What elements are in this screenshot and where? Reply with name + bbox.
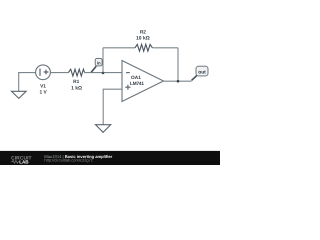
svg-text:http://circuitlab.com/c22g7c: http://circuitlab.com/c22g7c	[44, 158, 92, 163]
node junction (output net)	[177, 80, 180, 83]
node junction (inverting input net)	[102, 72, 105, 75]
wire from V1 left to corner	[19, 73, 36, 92]
voltage source V1	[36, 65, 51, 80]
ground (non-inverting input)	[96, 125, 111, 133]
op-amp OA1	[122, 61, 164, 102]
wire junction up to feedback	[102, 48, 104, 73]
svg-text:LAB: LAB	[19, 160, 29, 165]
wire op-amp non-inverting input	[103, 89, 122, 125]
svg-text:OA1: OA1	[131, 75, 141, 81]
svg-text:1 kΩ: 1 kΩ	[71, 85, 82, 91]
svg-text:R1: R1	[73, 79, 79, 85]
svg-text:LM741: LM741	[130, 81, 144, 86]
wire V1 to R1	[50, 72, 68, 74]
svg-text:V1: V1	[40, 84, 46, 90]
svg-text:in: in	[97, 60, 101, 65]
wire R1 to op-amp inverting input	[85, 72, 122, 74]
svg-text:out: out	[198, 69, 206, 75]
flag in	[91, 58, 102, 72]
wire feedback down to output	[177, 48, 179, 81]
wire top left segment	[103, 47, 135, 49]
resistor R1	[68, 69, 84, 76]
svg-text:1 V: 1 V	[39, 90, 47, 96]
svg-text:R2: R2	[140, 29, 146, 35]
wire top right segment	[152, 47, 178, 49]
flag out	[192, 66, 209, 80]
resistor R2	[135, 44, 152, 51]
CircuitLab logo	[11, 155, 32, 164]
svg-text:10 kΩ: 10 kΩ	[136, 36, 150, 42]
ground (left, V1 negative)	[12, 91, 27, 98]
wire output	[164, 80, 192, 82]
footer bar	[0, 151, 220, 165]
